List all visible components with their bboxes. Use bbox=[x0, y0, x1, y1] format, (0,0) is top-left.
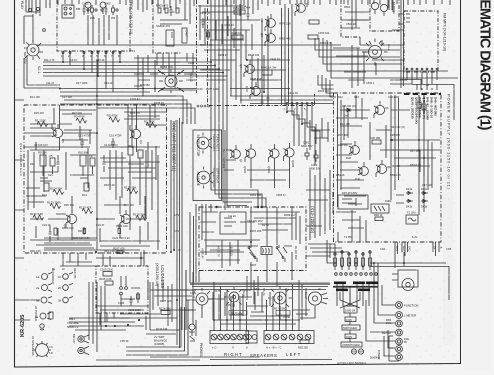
wire to source selector S2-1 bbox=[24, 14, 33, 44]
rotary switch S7 bbox=[224, 287, 246, 307]
label SPEAKERS col bbox=[31, 336, 35, 356]
wire lamp feeds bbox=[366, 263, 395, 356]
diode D47 bbox=[342, 104, 356, 118]
resistor R441 1K 3W bbox=[261, 66, 277, 76]
power switch S5 bbox=[33, 341, 53, 357]
wire IF top rows bbox=[198, 4, 246, 16]
lamp PL5 bbox=[396, 338, 411, 345]
bar separator line bbox=[333, 285, 378, 288]
headphone jack socket bbox=[304, 292, 328, 305]
wire volume zone verticals bbox=[146, 282, 180, 334]
FM MPX pins bbox=[406, 14, 438, 70]
wire under MPX bbox=[417, 84, 437, 90]
mic jack M1 bbox=[78, 335, 89, 343]
labels tape block bbox=[156, 4, 189, 39]
svg-text:R31: R31 bbox=[30, 162, 35, 166]
svg-text:C9 10: C9 10 bbox=[70, 58, 77, 62]
wire FM IF internal verticals bbox=[262, 4, 292, 105]
transistor Q2b bbox=[117, 210, 131, 228]
loudness block box X08-1090-10 bbox=[96, 266, 148, 313]
resistor R450 400 bbox=[279, 35, 318, 41]
loudness C163 bbox=[100, 268, 114, 277]
wire nested corners to right frame bbox=[315, 38, 458, 78]
transistor Q303 bbox=[267, 144, 279, 174]
resistor R402 pair bbox=[112, 5, 119, 15]
svg-text:C459 100: C459 100 bbox=[318, 31, 330, 35]
FM IF block box bbox=[197, 0, 315, 106]
svg-text:R39 1.5K: R39 1.5K bbox=[30, 249, 41, 253]
svg-text:R457 4.7K: R457 4.7K bbox=[200, 43, 213, 47]
resistor R55 22K bbox=[298, 340, 309, 350]
title text SCHEMATIC DIAGRAM (1) bbox=[477, 0, 493, 131]
resistor R123 390K bbox=[47, 201, 61, 209]
svg-text:0.8V: 0.8V bbox=[226, 303, 232, 307]
muting block box bbox=[341, 0, 399, 37]
svg-text:R443 100: R443 100 bbox=[248, 53, 260, 57]
panel jack row 1 bbox=[42, 273, 74, 280]
resistor R124 56K bbox=[50, 187, 64, 195]
transistor Q1b bbox=[130, 125, 143, 144]
wire tone pocket right bbox=[104, 150, 160, 205]
svg-text:C47 100: C47 100 bbox=[422, 183, 432, 187]
svg-text:4.5V: 4.5V bbox=[174, 213, 180, 217]
lamp PL2 bbox=[396, 312, 416, 319]
selector position labels bbox=[212, 134, 220, 187]
wire EQ pins B bbox=[157, 53, 193, 89]
label S3-a bbox=[387, 44, 391, 51]
rotary switch S1-1-2 bbox=[159, 69, 183, 93]
wire gear S3 area bbox=[362, 40, 382, 75]
svg-text:R36 330: R36 330 bbox=[124, 203, 134, 207]
power supply block box X00-1150-10 bbox=[334, 93, 442, 242]
capacitor C120 100 3.3V bbox=[72, 227, 90, 240]
svg-text:R309 2.2: R309 2.2 bbox=[284, 213, 295, 217]
svg-text:C451 10: C451 10 bbox=[224, 23, 234, 27]
svg-text:CN4: CN4 bbox=[380, 247, 386, 251]
transistor Da5 bbox=[346, 141, 359, 160]
svg-text:0.6V: 0.6V bbox=[174, 229, 180, 233]
wire bus y96-104 right run bbox=[230, 96, 333, 104]
relay wires bbox=[240, 207, 292, 271]
wire top right extra bbox=[341, 0, 393, 30]
wire vertical feeders top-center bbox=[211, 0, 241, 104]
capacitor C15 473P bbox=[78, 134, 91, 149]
wire phones feed bundle bbox=[183, 270, 196, 330]
capacitor C302 6800 50V bbox=[309, 150, 321, 170]
border frame left bbox=[14, 0, 16, 367]
tape play block box bbox=[153, 0, 182, 53]
primary cross wires bbox=[340, 292, 360, 308]
svg-text:R445 8.2K: R445 8.2K bbox=[250, 77, 263, 81]
wire FM IF pins down bbox=[247, 106, 320, 189]
wire S1 gear area bbox=[134, 55, 196, 96]
resistor R1 220K bbox=[35, 119, 48, 127]
transistor Da6 bbox=[355, 162, 368, 181]
wire corners into power supply bbox=[318, 75, 336, 97]
wire power supply internals bbox=[340, 95, 440, 215]
rotary switch S3 bbox=[363, 39, 388, 66]
connector CN1 box bbox=[62, 5, 74, 18]
border frame bottom bbox=[14, 364, 461, 368]
wire phono stage 2 bbox=[30, 196, 145, 240]
speaker terminal strip left bbox=[264, 331, 314, 344]
micro labels field bbox=[30, 5, 452, 343]
wire center spine right bbox=[338, 94, 342, 207]
resistor R172 960 box bbox=[229, 311, 247, 316]
protect circuit box bbox=[220, 212, 246, 234]
transistor Q301 bbox=[243, 144, 256, 174]
panel jack 2a bbox=[36, 284, 52, 292]
transistor Q455 bbox=[245, 82, 260, 99]
extra junction dots bbox=[59, 59, 425, 321]
wire bus y45 bbox=[36, 44, 372, 46]
wire tone bottom rows bbox=[30, 240, 160, 250]
terminal bars row1 bbox=[334, 282, 378, 285]
label Da8 legend bbox=[331, 192, 335, 214]
svg-text:R25 47K: R25 47K bbox=[34, 111, 44, 115]
legend Dr 2SC458 bbox=[222, 149, 226, 169]
rotary switch S1 SELECTOR bbox=[196, 133, 212, 158]
wire center spine verticals bbox=[177, 118, 182, 348]
wire bottom center nest2 bbox=[190, 212, 330, 314]
wire volume rows bbox=[69, 318, 144, 330]
caps C2 area bbox=[44, 225, 94, 248]
wire tone pocket left bbox=[26, 150, 46, 210]
wire misc top bbox=[46, 0, 392, 44]
svg-text:R33 2.2K: R33 2.2K bbox=[104, 183, 115, 187]
resistor R45 180 bbox=[370, 136, 381, 144]
svg-text:C95 30: C95 30 bbox=[120, 339, 129, 343]
svg-text:C21: C21 bbox=[48, 173, 53, 177]
label S2-1 bbox=[23, 52, 41, 73]
svg-text:R35 330: R35 330 bbox=[64, 203, 74, 207]
wire ac area bbox=[337, 282, 369, 342]
label AC110-120V bbox=[337, 361, 366, 365]
transistor Q2a bbox=[63, 210, 77, 228]
svg-text:CN5: CN5 bbox=[446, 247, 452, 251]
wire misc fill bbox=[60, 118, 330, 170]
wire top right of tone bbox=[97, 60, 155, 125]
loudness label bbox=[155, 263, 165, 288]
power supply label bbox=[447, 94, 452, 190]
resistor R449 bbox=[231, 31, 243, 39]
resistor R48 bbox=[374, 213, 383, 221]
wire right of relay verticals bbox=[306, 170, 330, 240]
regulator box bbox=[338, 191, 368, 209]
label R45 etc bbox=[340, 122, 405, 129]
wire FM IF interior bbox=[200, 16, 260, 80]
fuse F2 bbox=[406, 211, 418, 225]
wire EQ pins A bbox=[63, 51, 120, 92]
svg-text:C11 47: C11 47 bbox=[46, 81, 55, 85]
svg-text:R59 8.2K: R59 8.2K bbox=[410, 163, 421, 167]
power box top bold dash bbox=[404, 93, 441, 95]
outlet SWITCHED box bbox=[342, 325, 360, 330]
loudness junctions bbox=[120, 276, 140, 306]
panel switch S4 bbox=[35, 312, 53, 320]
wire selector output bbox=[24, 56, 60, 88]
lamp group bracket bbox=[389, 336, 399, 361]
svg-text:TAPE: TAPE bbox=[283, 315, 290, 319]
wire volume column bbox=[89, 282, 105, 352]
svg-text:C453 47: C453 47 bbox=[218, 53, 228, 57]
svg-text:R461 47K: R461 47K bbox=[320, 41, 332, 45]
wire IF right verticals bbox=[247, 55, 290, 92]
svg-text:R157 100K: R157 100K bbox=[206, 87, 219, 91]
svg-text:R49 560: R49 560 bbox=[338, 143, 348, 147]
wire bus bundle mid-left to relay bbox=[43, 62, 266, 207]
svg-text:C4 100 10V: C4 100 10V bbox=[104, 143, 118, 147]
wire relay outputs bbox=[240, 271, 292, 291]
wire tone interior rows bbox=[30, 148, 158, 250]
label FM AM dial lamp text bbox=[156, 327, 168, 331]
relay contact right bbox=[276, 245, 287, 262]
pin numbers EQ box bbox=[61, 54, 120, 58]
labels stage1 bbox=[38, 151, 93, 198]
terminal strip A left bbox=[246, 331, 257, 350]
svg-text:C13 22: C13 22 bbox=[104, 81, 113, 85]
wire gear S1 contacts bbox=[134, 70, 196, 96]
label R120 bbox=[62, 224, 128, 230]
svg-text:C307: C307 bbox=[250, 263, 257, 267]
labels near IF pins bbox=[284, 107, 306, 111]
resistor R125 56K bbox=[124, 186, 138, 194]
wire loudness area bbox=[96, 250, 144, 325]
label LEFT bbox=[266, 346, 302, 358]
wire MPX pins bbox=[372, 30, 437, 84]
diode quad D41 bbox=[406, 187, 428, 209]
border frame right bbox=[460, 0, 462, 364]
lamp PL4 bbox=[382, 329, 402, 336]
capacitor C456 bbox=[261, 96, 264, 106]
wire selector to relay feeders bbox=[196, 204, 211, 282]
B+ vertical labels bbox=[201, 246, 234, 259]
svg-text:R29 47K: R29 47K bbox=[130, 111, 140, 115]
EQ head amp block X08-1210-12 box bbox=[57, 0, 130, 51]
resistor R179 560 box bbox=[276, 311, 290, 316]
svg-text:C24 47: C24 47 bbox=[96, 223, 105, 227]
FM MPX label bbox=[443, 13, 447, 51]
wire tone fill rows bbox=[30, 126, 148, 244]
wire top-left verticals bbox=[88, 15, 117, 45]
label MIC bbox=[72, 334, 76, 344]
svg-text:R501: R501 bbox=[344, 5, 351, 9]
wire bottom mid gathering bbox=[96, 282, 300, 324]
svg-text:C45 470: C45 470 bbox=[390, 133, 400, 137]
wire relay interior extra bbox=[206, 240, 292, 268]
wire bottom center extra bbox=[186, 270, 306, 330]
svg-text:C501 22: C501 22 bbox=[346, 22, 356, 26]
muting transistors Q7 Q8 bbox=[371, 2, 387, 16]
relay RL1 coil bbox=[261, 247, 272, 255]
EQ box pin circles bbox=[62, 52, 121, 54]
relay contact left bbox=[248, 245, 257, 262]
wire mpx pair down bbox=[401, 0, 404, 88]
resistor R126 56K bbox=[133, 213, 147, 221]
power transformer T1 bbox=[392, 270, 418, 291]
wire tone amp internals bbox=[24, 96, 166, 250]
speaker terminal strip right bbox=[210, 331, 249, 344]
loudness R165 bbox=[99, 277, 113, 285]
transistor Q452 bbox=[260, 14, 275, 31]
output resistor row bbox=[334, 251, 372, 270]
label R153 10K bbox=[160, 65, 203, 91]
panel lamp bbox=[40, 324, 44, 330]
terminal bars row2 bbox=[336, 289, 370, 292]
svg-text:T1 PRI: T1 PRI bbox=[344, 235, 352, 239]
wire pot to jack area bbox=[196, 297, 315, 336]
svg-text:R51 1K: R51 1K bbox=[336, 173, 345, 177]
svg-text:R40 1.5K: R40 1.5K bbox=[104, 249, 115, 253]
resistor R5 470K bbox=[107, 114, 120, 123]
label M5 bbox=[76, 7, 80, 11]
svg-text:D43: D43 bbox=[354, 95, 359, 99]
capacitor C402 pair bbox=[101, 5, 108, 15]
transistor Q1a bbox=[52, 124, 65, 143]
svg-text:D42: D42 bbox=[338, 95, 343, 99]
label 50/60Hz corner bbox=[370, 356, 380, 360]
label SPEAKERS bbox=[250, 353, 277, 358]
rotary switch S2 MODE bbox=[196, 167, 213, 189]
legend Q1,2,4 2SC1345 bbox=[19, 143, 23, 176]
capacitor C401 pair bbox=[83, 5, 90, 15]
svg-text:C3 100 10V: C3 100 10V bbox=[34, 143, 48, 147]
capacitor C457 bbox=[267, 94, 270, 104]
phones jack J5 bbox=[189, 324, 203, 356]
meter strip box bbox=[224, 130, 226, 210]
outlet UNSWITCHED box bbox=[341, 342, 362, 347]
capacitor C41 bbox=[417, 95, 426, 110]
wire left edge stubs bbox=[15, 100, 40, 320]
wire resistor row feeds bbox=[327, 246, 370, 263]
svg-text:R307 39K: R307 39K bbox=[250, 229, 262, 233]
labels in EQ box bbox=[82, 2, 116, 21]
panel jack 2b bbox=[58, 284, 73, 291]
svg-text:R19 560: R19 560 bbox=[140, 83, 150, 87]
transistor Qb5 bbox=[376, 160, 391, 177]
label PLAY bbox=[20, 1, 24, 10]
svg-text:C305 47: C305 47 bbox=[276, 193, 286, 197]
resistor R470 22K bbox=[279, 20, 319, 26]
lamp PL6 bbox=[396, 346, 403, 353]
IF transformer cans bbox=[85, 2, 106, 14]
svg-text:C161 47: C161 47 bbox=[130, 97, 140, 101]
outlet 120V box bbox=[345, 317, 356, 322]
resistor R130 47K bbox=[79, 206, 93, 214]
relay board box X13-1200-10 bbox=[199, 207, 306, 271]
fuse holders row bbox=[335, 273, 378, 276]
ac outlet symbols bbox=[351, 349, 363, 354]
wire top edge stubs bbox=[58, 0, 450, 6]
resistor R451 10K bbox=[233, 6, 245, 14]
svg-text:C163: C163 bbox=[188, 61, 195, 65]
relay labels bbox=[247, 219, 298, 260]
wire bottom nest bbox=[126, 300, 188, 355]
misc small caps top-left of IF bbox=[202, 18, 210, 40]
selector panel box bbox=[193, 130, 222, 201]
svg-text:R21 10K: R21 10K bbox=[30, 95, 40, 99]
svg-text:C171: C171 bbox=[190, 291, 197, 295]
svg-text:C461 39: C461 39 bbox=[288, 91, 298, 95]
svg-text:R17 100K: R17 100K bbox=[76, 81, 88, 85]
wire speaker feeders left bbox=[267, 280, 300, 331]
svg-text:R177 10K: R177 10K bbox=[160, 299, 172, 303]
wire tone to loudness bbox=[60, 253, 96, 266]
resistor R132 5.6K bbox=[30, 212, 44, 220]
svg-text:R155 1K: R155 1K bbox=[154, 101, 164, 105]
rotary switch S6 tape bbox=[262, 286, 292, 311]
wire muting to power bbox=[333, 45, 368, 88]
model label KR-6205 bbox=[20, 315, 26, 337]
label POWER bbox=[34, 306, 38, 321]
capacitor C16 473P bbox=[109, 134, 122, 149]
power legend lines bbox=[411, 97, 438, 124]
resistor network stage1 left bbox=[40, 155, 60, 191]
svg-text:SCHEMATIC DIAGRAM (1): SCHEMATIC DIAGRAM (1) bbox=[477, 0, 493, 131]
panel jack 3b bbox=[58, 297, 73, 303]
wire relay right interior bbox=[250, 212, 300, 244]
svg-text:C441 10: C441 10 bbox=[270, 57, 280, 61]
transistor Q454 bbox=[239, 60, 254, 77]
svg-text:R11 4.7K: R11 4.7K bbox=[44, 58, 55, 62]
wire corner above power box bbox=[400, 80, 454, 121]
panel jack 3a bbox=[36, 297, 52, 304]
FM IF pins circles bbox=[286, 103, 313, 105]
pot VR1 tone bbox=[192, 288, 213, 309]
FM MPX block box X04-1210-10 bbox=[404, 11, 438, 72]
svg-text:R303 560: R303 560 bbox=[250, 193, 262, 197]
svg-text:S8-2: S8-2 bbox=[254, 287, 260, 291]
resistor R167 47K bbox=[113, 247, 125, 254]
tape block components bbox=[158, 6, 188, 46]
capacitor C454 bbox=[244, 6, 251, 21]
tone amp block box X11-0007-11 bbox=[24, 105, 167, 253]
wire speaker feeders right bbox=[214, 282, 247, 331]
transistor Q453 bbox=[260, 29, 275, 46]
transistor Q451 bbox=[295, 0, 309, 16]
wire muting to mpx bbox=[341, 14, 404, 45]
label AUX 960 bbox=[230, 313, 243, 317]
transistor Q305 bbox=[284, 143, 296, 168]
resistor R401 pair bbox=[91, 5, 98, 15]
wire power interior extra bbox=[336, 95, 396, 162]
svg-text:R27 22K: R27 22K bbox=[72, 111, 82, 115]
lamp PL3 bbox=[386, 319, 402, 327]
svg-text:TP1: TP1 bbox=[130, 49, 135, 53]
wire bottom mid horizontals bbox=[108, 282, 290, 320]
transistor Qr bbox=[230, 145, 243, 162]
mic jack M2 bbox=[78, 347, 89, 355]
label RECORDER column bbox=[51, 268, 77, 284]
wire power box pins down bbox=[395, 242, 439, 256]
resistor R2 220K bbox=[144, 120, 157, 128]
diode bridge D48 bbox=[371, 199, 392, 213]
relay board label bbox=[310, 206, 315, 234]
wire above tone box bbox=[60, 105, 166, 150]
resistor R3 470K bbox=[74, 115, 87, 124]
svg-text:C503 1: C503 1 bbox=[366, 81, 375, 85]
capacitor C121 bbox=[112, 229, 130, 241]
wire bus y88 bbox=[60, 89, 290, 93]
svg-text:C23 47: C23 47 bbox=[42, 223, 51, 227]
svg-text:R455 1K: R455 1K bbox=[200, 11, 210, 15]
wire relay top horizontals bbox=[200, 212, 260, 260]
wire tone-selector verticals bbox=[171, 120, 174, 252]
transistor Qb4 bbox=[374, 101, 389, 118]
wire input jacks top-left bbox=[26, 0, 40, 16]
label RIGHT bbox=[212, 346, 243, 358]
EQ head amp block label (X08-1210-12) bbox=[129, 2, 133, 34]
